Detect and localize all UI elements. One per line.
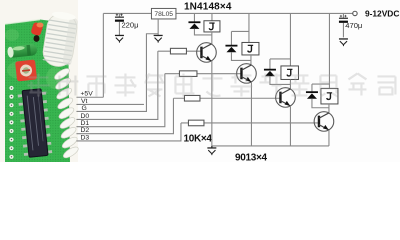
svg-text:D2: D2 (80, 127, 89, 134)
wire: G module ground line (76, 34, 158, 112)
wire: D1 line riser (76, 74, 164, 127)
wire: Q3 collector stub (289, 79, 291, 88)
wire: diode D2 bottom lead and bridge (231, 52, 251, 60)
wire: +5V rail top left (103, 12, 151, 14)
resistor R4 10K (181, 120, 318, 126)
wire: D3 line riser (76, 123, 181, 141)
svg-text:10K×4: 10K×4 (183, 133, 212, 144)
wire: regulator ground lead (157, 19, 159, 35)
ground below regulator (154, 35, 163, 42)
svg-text:470μ: 470μ (345, 21, 362, 30)
wire: diode D4 bottom lead and bridge (312, 99, 329, 108)
capacitor C2 470u plates (339, 15, 348, 23)
green electrolytic capacitor on PCB (7, 44, 38, 59)
svg-text:1N4148×4: 1N4148×4 (184, 2, 232, 13)
relay J2 (242, 42, 259, 55)
svg-text:Vt: Vt (81, 98, 88, 105)
transistor Q2 9013 (237, 64, 257, 84)
ground below C1 (115, 35, 124, 42)
wire: channel 2 top bridge (231, 30, 249, 32)
resistor R1 10K (158, 48, 201, 54)
wire: Vt module line (76, 103, 144, 105)
svg-text:78L05: 78L05 (154, 11, 173, 18)
wire: diode D4 top lead (311, 84, 313, 92)
wire: channel 4 top bridge (312, 83, 330, 85)
terminal 9-12VDC (353, 11, 357, 15)
wire: Q2 emitter to ground rail (250, 82, 252, 146)
capacitor C1 220u plates (115, 14, 124, 22)
wire: Q2 collector stub (250, 55, 252, 65)
antenna coil (41, 10, 79, 69)
wire: Q1 collector stub (211, 32, 213, 44)
svg-text:220μ: 220μ (121, 21, 138, 30)
wire: diode D3 top lead (269, 59, 271, 69)
resistor R2 10K (165, 71, 241, 77)
red trimmer on PCB (15, 60, 37, 82)
wire: +5V module line (76, 96, 103, 98)
wire: channel 4 feed from rail (328, 13, 330, 88)
wire: D2 line riser (76, 98, 173, 133)
diode D4 1N4148 (306, 92, 318, 99)
wire: emitter ground rail (212, 145, 329, 147)
wire: diode D1 top lead (193, 13, 195, 21)
solder pads column (9, 86, 13, 159)
svg-text:D3: D3 (80, 135, 89, 142)
ground below C2 (339, 39, 348, 46)
transistor Q3 9013 (276, 88, 296, 108)
wire: relay J1 feed from rail (211, 13, 213, 20)
transistor Q1 9013 (197, 43, 217, 63)
svg-text:D0: D0 (80, 113, 89, 120)
relay J4 (321, 88, 338, 104)
wire: +5V riser to module (102, 13, 104, 97)
ground main (207, 146, 216, 155)
diode D1 1N4148 (188, 22, 200, 29)
PCB module photo (0, 0, 80, 162)
resistor R3 10K (173, 95, 280, 101)
svg-text:G: G (81, 105, 86, 112)
relay J3 (281, 66, 299, 80)
IC chip on PCB (17, 88, 52, 158)
wire: Q4 collector stub (328, 104, 330, 113)
wire: Q1 emitter to ground rail (211, 61, 213, 146)
watermark text (27, 73, 395, 96)
wire: channel 2 feed from rail (248, 13, 250, 42)
regulator U2 78L05 (151, 8, 176, 19)
red component on PCB (30, 22, 43, 42)
wire: diode D3 bottom lead and bridge (270, 76, 291, 84)
wire: channel 3 feed from rail (289, 13, 291, 66)
relay J1 (204, 21, 220, 32)
svg-text:9013×4: 9013×4 (235, 152, 268, 162)
svg-text:9-12VDC: 9-12VDC (365, 9, 399, 19)
wire: D0 line riser (76, 51, 157, 119)
diode D3 1N4148 (264, 70, 276, 77)
wire: channel 3 top bridge (270, 58, 291, 60)
wire: Q3 emitter to ground rail (289, 106, 291, 146)
header pins / wires (53, 67, 80, 160)
wire: diode D2 top lead (230, 31, 232, 45)
wire: diode D1 bottom lead and bridge to Q1 collector (194, 29, 211, 35)
capacitor C2 470u lead (342, 13, 344, 37)
capacitor C1 220u lead (118, 13, 120, 35)
wire: +12V top rail (176, 12, 353, 14)
transistor Q4 9013 (314, 112, 334, 132)
svg-text:D1: D1 (80, 120, 89, 127)
diode D2 1N4148 (225, 46, 237, 53)
svg-text:+5V: +5V (80, 91, 93, 98)
wire: Q4 emitter to ground rail (328, 130, 330, 146)
